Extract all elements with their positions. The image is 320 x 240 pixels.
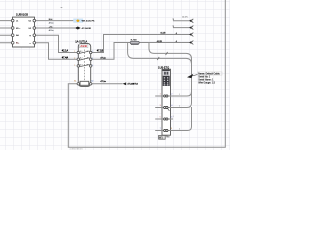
svg-text:Serial Name: 1: Serial Name: 1 <box>198 79 214 82</box>
svg-text:1: 1 <box>173 19 174 21</box>
svg-text:A1: A1 <box>74 79 76 82</box>
svg-text:14.6%: 14.6% <box>182 17 188 19</box>
svg-text:6T3: 6T3 <box>87 64 90 66</box>
svg-text:Nd: Nd <box>16 35 19 37</box>
svg-text:3: 3 <box>74 58 75 60</box>
svg-text:2: 2 <box>179 105 180 107</box>
svg-text:+TC: +TC <box>49 27 53 29</box>
svg-text:3: 3 <box>160 105 161 107</box>
svg-text:8: 8 <box>171 128 172 130</box>
svg-text:1: 1 <box>74 51 75 53</box>
svg-text:1UB01GB: 1UB01GB <box>16 13 28 17</box>
svg-text:47.1x: 47.1x <box>49 22 54 24</box>
svg-text:2T1: 2T1 <box>87 51 90 53</box>
svg-text:S-700: S-700 <box>131 40 138 42</box>
svg-text:3L2: 3L2 <box>80 58 83 60</box>
svg-text:1UB01GB-W1: 1UB01GB-W1 <box>70 149 84 150</box>
svg-text:Wire Gauge: 1.5: Wire Gauge: 1.5 <box>198 82 215 85</box>
svg-text:1: 1 <box>160 93 161 95</box>
svg-text:W1: W1 <box>159 137 163 140</box>
svg-text:47.1e: 47.1e <box>100 81 106 83</box>
svg-text:1UB-E7Q: 1UB-E7Q <box>158 65 169 69</box>
svg-text:2: 2 <box>171 93 172 95</box>
svg-text:5: 5 <box>74 65 75 67</box>
svg-text:Name: Default Cable.: Name: Default Cable. <box>198 72 220 75</box>
svg-text:47.1B: 47.1B <box>97 50 104 53</box>
svg-text:5: 5 <box>160 116 161 118</box>
svg-text:Serial No: 1: Serial No: 1 <box>198 76 211 79</box>
svg-text:1: 1 <box>179 94 180 96</box>
svg-text:4: 4 <box>179 128 180 130</box>
svg-text:6: 6 <box>92 65 93 67</box>
svg-text:41.1B: 41.1B <box>160 33 166 35</box>
svg-text:1: 1 <box>173 116 174 118</box>
svg-text:B1-: B1- <box>16 43 19 45</box>
svg-text:1: 1 <box>173 26 174 28</box>
svg-text:A2: A2 <box>91 79 93 82</box>
svg-text:42.1A: 42.1A <box>62 50 69 53</box>
svg-text:4: 4 <box>176 33 177 35</box>
svg-text:4: 4 <box>176 41 177 43</box>
svg-text:ABB: ABB <box>80 44 87 48</box>
svg-text:47.1x: 47.1x <box>49 30 54 32</box>
svg-text:4: 4 <box>92 58 93 60</box>
svg-text:47.1c: 47.1c <box>100 57 106 59</box>
svg-text:47.2/4.3D: 47.2/4.3D <box>82 28 92 30</box>
svg-text:7: 7 <box>160 128 161 130</box>
svg-text:NL4: NL4 <box>49 19 52 21</box>
svg-text:4: 4 <box>171 105 172 107</box>
svg-text:4T2: 4T2 <box>87 58 90 60</box>
svg-text:5L3: 5L3 <box>80 64 83 66</box>
svg-text:47.4A: 47.4A <box>62 56 69 59</box>
svg-text:41.2B: 41.2B <box>157 41 163 43</box>
svg-text:2: 2 <box>92 51 93 53</box>
svg-text:WE 4.5/4.7%: WE 4.5/4.7% <box>82 21 95 23</box>
svg-text:47.348/7.8: 47.348/7.8 <box>127 84 138 86</box>
svg-text:1L1: 1L1 <box>80 51 83 53</box>
